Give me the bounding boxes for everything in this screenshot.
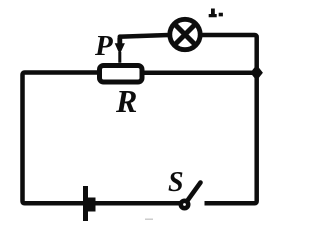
- svg-text:P: P: [94, 30, 113, 62]
- faint watermark: [145, 219, 153, 220]
- switch S pivot: [181, 201, 188, 208]
- wire: switch right, up right side, top to lamp right terminal: [202, 35, 257, 203]
- lamp L (circle with X): [170, 19, 200, 49]
- wire: battery to switch pivot: [95, 201, 181, 206]
- wire: resistor right end to right-side junction: [144, 71, 257, 76]
- junction node (right side, resistor branch meets main loop): [250, 65, 263, 81]
- svg-text:S: S: [168, 167, 184, 198]
- switch S lever: [188, 183, 201, 201]
- battery: long plate (positive): [83, 186, 88, 221]
- wire: left loop (resistor left end, down left side, to battery): [23, 73, 98, 204]
- label L (lamp designator with dot): [209, 9, 223, 18]
- svg-text:R: R: [115, 83, 137, 119]
- battery: short thick plate (negative): [88, 198, 96, 212]
- wire: lamp left terminal to slider P top: [120, 35, 169, 44]
- slider P arrow: [115, 38, 125, 63]
- resistor R (rheostat body): [100, 66, 143, 83]
